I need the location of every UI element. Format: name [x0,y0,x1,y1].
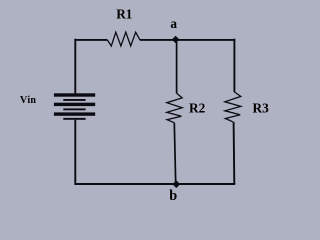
battery Vin plate thick 2 [54,103,95,106]
wire top side right segment [140,39,235,41]
svg-text:R1: R1 [116,6,132,21]
wire middle lower [174,123,175,184]
battery Vin plate thin 1 [63,99,85,101]
node b [172,180,180,188]
wire left side lower [74,120,76,184]
wire bottom side [74,183,235,185]
svg-text:R2: R2 [189,101,206,116]
battery Vin plate thick 3 [54,112,95,115]
wire left side upper [74,39,76,94]
battery Vin plate thin 3 [63,118,85,120]
svg-text:Vin: Vin [20,95,37,106]
wire right side lower [233,122,236,184]
wire middle upper [176,40,178,94]
battery Vin plate thick 1 [54,93,95,96]
wire right side upper [233,39,235,92]
battery Vin plate thin 2 [63,108,85,110]
resistor R3 [225,92,241,122]
wire top side left segment [74,39,107,41]
resistor R2 [167,93,182,123]
svg-text:R3: R3 [253,101,270,116]
node a [172,36,180,44]
svg-text:a: a [170,16,177,31]
svg-text:b: b [169,188,177,204]
resistor R1 [107,32,140,46]
